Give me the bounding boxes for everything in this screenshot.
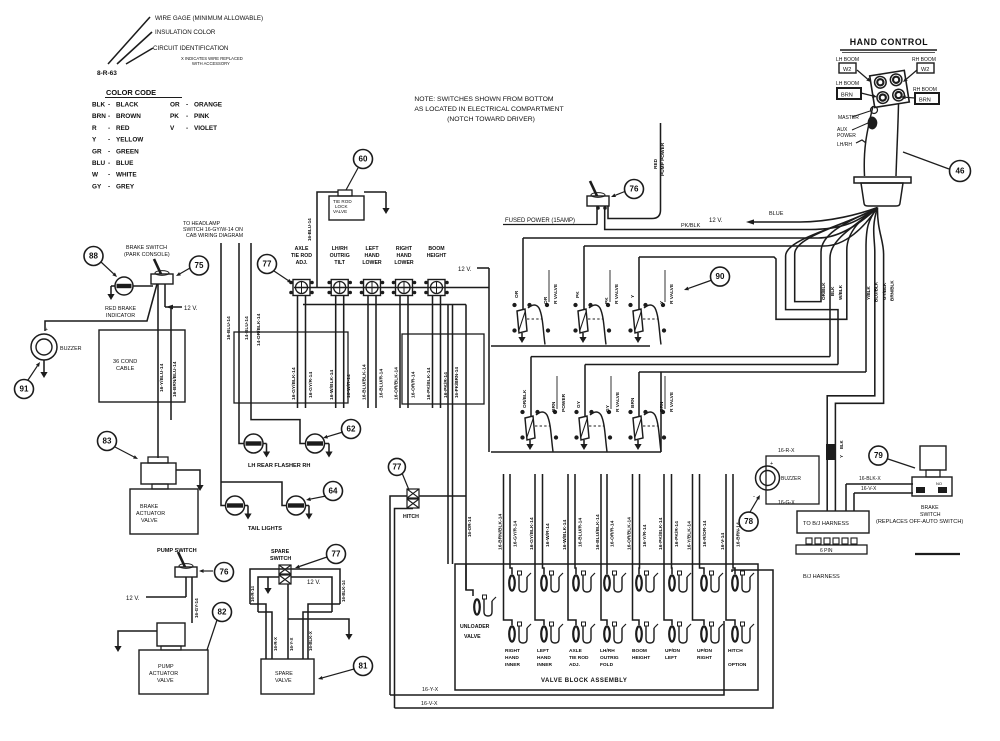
svg-text:OUTRIG: OUTRIG (600, 655, 619, 661)
svg-text:HAND: HAND (365, 253, 380, 259)
fan wire hairpin 2 (786, 208, 878, 365)
svg-text:OPTION: OPTION (728, 662, 747, 668)
svg-text:ADJ.: ADJ. (569, 662, 580, 668)
callout 77 hitch (388, 458, 405, 475)
relay row2 right edge (660, 372, 662, 452)
svg-text:16-Y/BLU-14: 16-Y/BLU-14 (159, 363, 165, 392)
svg-text:16-OR/BLK-14: 16-OR/BLK-14 (394, 367, 400, 400)
svg-text:-: - (108, 113, 110, 120)
svg-text:BLUE: BLUE (116, 160, 134, 167)
svg-text:GY/BLK: GY/BLK (882, 282, 887, 300)
svg-text:VALVE: VALVE (333, 209, 347, 214)
svg-text:76: 76 (630, 185, 639, 194)
valve solenoid row2 col1 (509, 626, 515, 641)
spare switch T wiring (250, 569, 340, 604)
wire 16-Y-X bottom (390, 621, 724, 695)
svg-text:77: 77 (263, 260, 272, 269)
buzzer right (756, 466, 780, 490)
valve block assembly box (455, 564, 758, 690)
svg-text:14-BLU-14: 14-BLU-14 (244, 316, 250, 340)
svg-text:BRAKE SWITCH: BRAKE SWITCH (126, 245, 167, 251)
brake actuator relay (148, 457, 168, 463)
svg-text:-: - (108, 137, 110, 144)
valve relay Y (633, 309, 643, 333)
callout 75 (180, 268, 190, 274)
svg-text:LH BOOM: LH BOOM (836, 57, 859, 63)
svg-text:GREEN: GREEN (116, 148, 139, 155)
callout 78 (739, 512, 758, 531)
red brake indicator lamp (115, 277, 133, 295)
hand control base cup (861, 183, 903, 206)
valve block wire pair 7 (700, 474, 705, 574)
svg-text:Y: Y (92, 137, 97, 144)
valve solenoid row1 col1 (509, 575, 515, 590)
bus wire to OR valve relay (523, 208, 878, 239)
svg-text:16-BRN/BLK-14: 16-BRN/BLK-14 (498, 514, 504, 550)
svg-text:8-R-63: 8-R-63 (97, 70, 117, 77)
svg-text:BLK: BLK (839, 440, 844, 449)
tie rod valve wires (317, 192, 338, 288)
svg-text:BROWN: BROWN (116, 113, 141, 120)
svg-text:SWITCH: SWITCH (270, 556, 291, 562)
svg-text:14-OR/BLK-14: 14-OR/BLK-14 (256, 313, 262, 346)
svg-text:91: 91 (20, 385, 29, 394)
svg-text:W: W (92, 172, 99, 179)
brake relay ground wire (176, 470, 200, 482)
buzzer left ground (43, 360, 45, 368)
bus wire Y valve feed (639, 208, 878, 320)
svg-text:16-G-X: 16-G-X (778, 500, 795, 506)
svg-text:BLK: BLK (92, 102, 106, 109)
wire 14-BLU-14 (239, 243, 244, 444)
svg-text:VALVE BLOCK ASSEMBLY: VALVE BLOCK ASSEMBLY (541, 678, 627, 684)
svg-text:16-W/BLK-14: 16-W/BLK-14 (329, 370, 335, 400)
svg-text:(REPLACES OFF-AUTO SWITCH): (REPLACES OFF-AUTO SWITCH) (876, 519, 963, 525)
svg-text:RIGHT: RIGHT (505, 648, 520, 654)
callout 76 fused power (615, 191, 626, 195)
svg-text:R VALVE: R VALVE (669, 283, 675, 304)
wires 16-BLK-X 16-V-X to brake switch (846, 483, 913, 485)
svg-text:LOWER: LOWER (362, 260, 382, 266)
svg-text:RIGHT: RIGHT (697, 655, 712, 661)
svg-text:POWER: POWER (561, 393, 567, 412)
svg-text:16-Y/BLK-14: 16-Y/BLK-14 (687, 521, 693, 550)
brake switch toggle (151, 274, 173, 284)
svg-text:SPARE: SPARE (275, 671, 293, 677)
spare switch middle wire (287, 584, 289, 659)
svg-text:79: 79 (874, 451, 883, 460)
svg-text:WITH ACCESSORY: WITH ACCESSORY (192, 61, 230, 66)
svg-text:W/BLK: W/BLK (838, 284, 843, 300)
svg-text:HEIGHT: HEIGHT (427, 253, 447, 259)
svg-text:BRN: BRN (551, 401, 557, 412)
svg-text:INDICATOR: INDICATOR (106, 313, 135, 319)
svg-text:R VALVE: R VALVE (553, 283, 559, 304)
valve solenoid row2 col5 (636, 626, 642, 641)
legend callout lines (108, 17, 150, 64)
hitch wires (390, 496, 407, 695)
valve solenoid row2 col4 (604, 626, 610, 641)
svg-text:76: 76 (220, 568, 229, 577)
svg-text:16-GY-14: 16-GY-14 (194, 598, 199, 618)
red pump power wire (660, 123, 662, 210)
tail light lamp LH (226, 496, 245, 515)
valve solenoid row1 col5 (636, 575, 642, 590)
wire 14-OR/BLK-14 (251, 243, 306, 444)
svg-text:GY: GY (576, 400, 582, 408)
svg-text:OR/BLK: OR/BLK (821, 282, 826, 300)
svg-text:60: 60 (359, 155, 368, 164)
svg-text:12 V.: 12 V. (184, 306, 198, 312)
callout 90 Y valve (688, 280, 712, 288)
svg-text:16-BLK-X: 16-BLK-X (308, 631, 313, 651)
hand control base flange (854, 177, 911, 183)
svg-text:16-BLU/BLK-14: 16-BLU/BLK-14 (362, 364, 368, 400)
relay row1 feed drops (522, 238, 524, 310)
callout 46 (903, 152, 949, 169)
svg-text:Y/BLK: Y/BLK (866, 286, 871, 300)
hitch switch (407, 489, 419, 498)
switch row top bus (294, 287, 489, 289)
svg-text:HITCH: HITCH (403, 514, 419, 520)
svg-text:YELLOW: YELLOW (116, 137, 144, 144)
svg-text:BLU: BLU (92, 160, 106, 167)
switch S2 wire pair (335, 296, 337, 408)
svg-text:16-PK/BLK-14: 16-PK/BLK-14 (658, 517, 664, 550)
svg-text:VIOLET: VIOLET (194, 125, 217, 132)
svg-text:GY: GY (605, 404, 611, 412)
svg-text:16-GY/R-14: 16-GY/R-14 (308, 372, 314, 398)
pump actuator valve box (139, 650, 208, 694)
relay row1 ground bus (491, 345, 650, 347)
svg-text:(PARK CONSOLE): (PARK CONSOLE) (124, 252, 170, 258)
svg-text:16-OR/BLK-14: 16-OR/BLK-14 (627, 517, 633, 550)
svg-text:BRN: BRN (92, 113, 106, 120)
svg-text:BLACK: BLACK (116, 102, 139, 109)
switch S3 wire pair (367, 296, 369, 408)
svg-text:BRN/BLK: BRN/BLK (890, 280, 895, 301)
spare valve box (261, 659, 314, 694)
svg-text:16-BLU/BLK-14: 16-BLU/BLK-14 (595, 514, 601, 550)
callout 88 (84, 247, 103, 266)
valve relay GY (579, 416, 589, 440)
svg-text:16-BLU-14: 16-BLU-14 (307, 218, 312, 241)
svg-text:16-R-14: 16-R-14 (250, 586, 255, 602)
svg-text:PUMP: PUMP (158, 664, 174, 670)
svg-text:16-R-X: 16-R-X (273, 637, 278, 651)
svg-text:HAND: HAND (397, 253, 412, 259)
svg-text:16-OR/R-14: 16-OR/R-14 (411, 371, 417, 398)
wire fused switch left terminal (596, 206, 598, 225)
svg-text:16-V-X: 16-V-X (861, 486, 877, 492)
svg-text:PUMP SWITCH: PUMP SWITCH (157, 548, 197, 554)
svg-text:AS LOCATED IN ELECTRICAL COMPA: AS LOCATED IN ELECTRICAL COMPARTMENT (414, 106, 563, 113)
spare switch (279, 565, 291, 574)
svg-text:83: 83 (103, 437, 112, 446)
svg-text:INSULATION COLOR: INSULATION COLOR (155, 29, 216, 36)
cable band B (402, 334, 484, 404)
svg-text:R VALVE: R VALVE (614, 283, 620, 304)
svg-text:AXLE: AXLE (295, 246, 309, 252)
wire 12V drop to relay ground bus (488, 268, 490, 452)
svg-text:LH BOOM: LH BOOM (836, 81, 859, 87)
svg-text:OR: OR (543, 296, 549, 304)
wire 16-OR-14 to unloader (466, 305, 473, 597)
svg-text:16-R/OR-14: 16-R/OR-14 (702, 520, 708, 547)
switch S4 RIGHT HAND LOWER (396, 280, 413, 296)
flasher LH ground (263, 443, 267, 445)
svg-text:W2: W2 (843, 67, 851, 73)
svg-text:ORANGE: ORANGE (194, 102, 223, 109)
svg-text:VALVE: VALVE (141, 518, 158, 524)
wire right pair to valve block (447, 305, 449, 565)
svg-text:HEIGHT: HEIGHT (632, 655, 650, 661)
svg-text:HAND: HAND (537, 655, 551, 661)
svg-text:PK: PK (604, 297, 610, 304)
pump relay ground (118, 631, 157, 643)
svg-text:GR: GR (92, 148, 102, 155)
svg-text:R VALVE: R VALVE (669, 391, 675, 412)
callout 83 (98, 432, 117, 451)
valve relay OR (517, 309, 527, 333)
svg-text:(NOTCH TOWARD DRIVER): (NOTCH TOWARD DRIVER) (447, 116, 535, 123)
hand control aux button (868, 116, 878, 129)
callout 79 (869, 446, 888, 465)
svg-text:16-R-X: 16-R-X (778, 448, 795, 454)
wire into 36 cond cable (157, 284, 159, 458)
svg-text:16-W/R-14: 16-W/R-14 (545, 523, 551, 547)
pump switch wires (185, 577, 187, 597)
switch S3 LEFT HAND LOWER (364, 280, 381, 296)
indicator ground (111, 285, 115, 287)
svg-text:78: 78 (744, 517, 753, 526)
callout 82 (213, 603, 232, 622)
svg-text:LEFT: LEFT (366, 246, 380, 252)
svg-text:OR: OR (170, 102, 180, 109)
flasher lamp LH (244, 434, 263, 453)
svg-text:ACTUATOR: ACTUATOR (149, 671, 178, 677)
valve solenoid row1 col3 (573, 575, 579, 590)
svg-text:VALVE: VALVE (157, 678, 174, 684)
valve solenoid row2 col6 (669, 626, 675, 641)
svg-text:R: R (92, 125, 97, 132)
svg-text:BRN: BRN (659, 401, 665, 412)
svg-text:-: - (108, 160, 110, 167)
svg-text:PINK: PINK (194, 113, 210, 120)
switch S2 LH/RH OUTRIG TILT (331, 280, 348, 296)
svg-text:16-BLK-X: 16-BLK-X (859, 476, 881, 482)
svg-text:16-Y/R-14: 16-Y/R-14 (642, 524, 648, 547)
valve solenoid row2 col3 (573, 626, 579, 641)
svg-text:16-PK/BLK-14: 16-PK/BLK-14 (426, 367, 432, 400)
svg-text:NO: NO (936, 481, 942, 486)
svg-text:INNER: INNER (537, 662, 552, 668)
svg-text:77: 77 (332, 550, 341, 559)
valve block wire pair 8 (733, 474, 735, 574)
flasher lamp RH (306, 434, 325, 453)
tail RH ground (306, 505, 310, 507)
valve solenoid row1 col6 (669, 575, 675, 590)
svg-text:HITCH: HITCH (728, 648, 743, 654)
svg-text:SPARE: SPARE (271, 549, 290, 555)
svg-text:ADJ.: ADJ. (296, 260, 308, 266)
svg-text:BRAKE: BRAKE (921, 505, 939, 511)
callout 77 spare (327, 545, 346, 564)
svg-text:-: - (186, 125, 188, 132)
svg-text:16-PK/BRN-14: 16-PK/BRN-14 (454, 367, 459, 398)
svg-text:RED: RED (116, 125, 130, 132)
valve block wire pair 5 (638, 474, 641, 574)
svg-text:-: - (108, 183, 110, 190)
svg-text:6 PIN: 6 PIN (820, 548, 833, 554)
svg-text:INNER: INNER (505, 662, 520, 668)
valve relay BRN (633, 416, 643, 440)
svg-text:PK: PK (170, 113, 179, 120)
svg-text:16-OR/R-14: 16-OR/R-14 (610, 520, 616, 547)
spare switch ground arrow (267, 577, 269, 586)
svg-text:+: + (45, 327, 48, 333)
svg-text:-: - (108, 102, 110, 109)
svg-text:OUTRIG: OUTRIG (330, 253, 350, 259)
svg-text:CABLE: CABLE (116, 366, 135, 372)
svg-text:PUMP POWER: PUMP POWER (660, 142, 666, 176)
svg-text:16-BLU/R-14: 16-BLU/R-14 (578, 518, 584, 547)
wire brake switch 12V drop (164, 284, 166, 307)
wire tail light RH (221, 482, 287, 506)
svg-text:LH/RH: LH/RH (837, 142, 852, 148)
svg-text:12 V.: 12 V. (458, 267, 472, 273)
svg-text:46: 46 (956, 167, 965, 176)
svg-text:16-BRN/BLU-14: 16-BRN/BLU-14 (172, 361, 178, 397)
svg-text:W2: W2 (921, 67, 929, 73)
svg-text:16-V-14: 16-V-14 (720, 533, 726, 550)
svg-text:TIE ROD: TIE ROD (569, 655, 589, 661)
svg-text:90: 90 (716, 272, 725, 281)
svg-text:16-Y-X: 16-Y-X (422, 687, 439, 693)
callout 76 pump (204, 570, 213, 572)
valve solenoid row2 col8 (732, 626, 738, 641)
svg-text:77: 77 (392, 463, 401, 472)
wire 16-V-X bottom (395, 570, 774, 708)
svg-text:36 COND: 36 COND (113, 359, 137, 365)
svg-text:88: 88 (89, 252, 98, 261)
switch S4 wire pair (399, 296, 401, 408)
svg-text:81: 81 (359, 662, 368, 671)
valve relay PK (578, 309, 588, 333)
valve solenoid row1 col4 (604, 575, 610, 590)
svg-text:RED BRAKE: RED BRAKE (105, 306, 137, 312)
svg-text:16-V-X: 16-V-X (421, 701, 438, 707)
svg-text:BUZZER: BUZZER (60, 346, 82, 352)
svg-text:ACTUATOR: ACTUATOR (136, 511, 165, 517)
wire drop to bus 356 (830, 208, 878, 357)
svg-text:16-GY/BLK-14: 16-GY/BLK-14 (291, 367, 297, 400)
valve block internal bus (465, 564, 467, 590)
svg-text:16-GY/BLK-14: 16-GY/BLK-14 (529, 517, 535, 550)
svg-text:-: - (186, 102, 188, 109)
callout 81 (354, 657, 373, 676)
svg-text:16-W/BLK-14: 16-W/BLK-14 (562, 520, 568, 550)
to B/J harness box (797, 511, 869, 533)
flasher RH ground (325, 443, 330, 445)
svg-text:CIRCUIT IDENTIFICATION: CIRCUIT IDENTIFICATION (153, 45, 228, 52)
bus wire to PK valve relay (584, 208, 878, 247)
svg-text:PK/BLK: PK/BLK (681, 223, 701, 229)
svg-text:TO B/J HARNESS: TO B/J HARNESS (803, 521, 849, 527)
cable band A (234, 332, 348, 403)
spare switch ground branch (288, 619, 349, 631)
valve block wire pair 4 (606, 474, 608, 574)
svg-text:BUZZER: BUZZER (781, 476, 801, 482)
pump switch toggle (175, 567, 197, 577)
svg-text:82: 82 (218, 608, 227, 617)
fan wire hairpin 1 (795, 208, 878, 302)
brake actuator valve box (130, 489, 198, 534)
svg-text:-: - (108, 148, 110, 155)
svg-text:BRN: BRN (841, 93, 853, 99)
svg-text:BRN: BRN (919, 98, 931, 104)
6 pin connector (806, 538, 812, 544)
svg-text:CAB WIRING DIAGRAM: CAB WIRING DIAGRAM (186, 233, 243, 239)
svg-text:OR/BLK: OR/BLK (522, 389, 528, 408)
svg-text:TAIL LIGHTS: TAIL LIGHTS (248, 526, 282, 532)
tail LH ground (245, 505, 249, 507)
svg-text:GY: GY (92, 183, 102, 190)
fused power toggle switch (587, 196, 609, 206)
switch S5 BOOM HEIGHT (428, 280, 445, 296)
valve block wire pair 3 (575, 474, 576, 574)
svg-text:POWER: POWER (837, 133, 856, 139)
svg-text:WIRE GAGE (MINIMUM ALLOWABLE): WIRE GAGE (MINIMUM ALLOWABLE) (155, 15, 263, 22)
svg-text:16-GY/R-14: 16-GY/R-14 (513, 521, 519, 547)
valve solenoid row2 col7 (701, 626, 707, 641)
svg-text:LH/RH: LH/RH (600, 648, 615, 654)
tie rod lock valve box (329, 196, 364, 220)
dash mark (915, 553, 960, 555)
svg-text:62: 62 (347, 425, 356, 434)
svg-text:BLU/BLK: BLU/BLK (874, 281, 879, 302)
svg-text:GREY: GREY (116, 183, 135, 190)
svg-text:BLUE: BLUE (769, 211, 784, 217)
svg-text:UP/DN: UP/DN (697, 648, 712, 654)
pump actuator relay (157, 623, 185, 646)
fan wire to B/J pair 2 (835, 208, 883, 512)
valve block wire pair 6 (671, 474, 674, 574)
svg-text:BRN: BRN (630, 397, 636, 408)
wire 16-BLU-14 long (221, 243, 226, 506)
fan wire to B/J pair 1 (827, 208, 877, 512)
svg-text:12 V.: 12 V. (307, 580, 321, 586)
valve solenoid row1 col2 (541, 575, 547, 590)
svg-text:LOWER: LOWER (394, 260, 414, 266)
svg-text:OR: OR (514, 290, 520, 298)
callout 62 (342, 420, 361, 439)
callout 60 (354, 150, 373, 169)
brake pressure switch (920, 446, 946, 470)
relay row2 ground bus (491, 451, 661, 453)
svg-text:UP/DN: UP/DN (665, 648, 680, 654)
wire 12V blue to hand control (752, 208, 878, 223)
callout 77 switch row (258, 255, 277, 274)
buzzer right box (766, 456, 819, 504)
svg-text:16-Y-X: 16-Y-X (289, 638, 294, 651)
svg-text:RED: RED (653, 158, 659, 169)
svg-text:+: + (770, 461, 773, 467)
svg-text:HAND: HAND (505, 655, 519, 661)
bus wire to BRN relay row2 (639, 371, 866, 373)
svg-text:16-W/R-14: 16-W/R-14 (346, 374, 352, 398)
svg-text:TILT: TILT (334, 260, 345, 266)
